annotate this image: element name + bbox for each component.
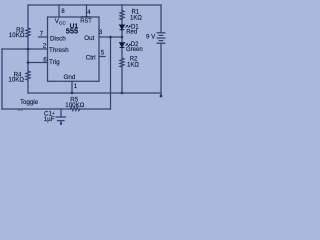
wire pin4 drop [86, 5, 88, 17]
op 555 box U1 [48, 17, 100, 81]
node gnd pin1 junction [71, 92, 74, 95]
wire D1 to out node [121, 30, 123, 43]
capacitor C1 bottom lead [60, 121, 62, 124]
wire pin3 Out [99, 36, 122, 38]
svg-text:10KΩ: 10KΩ [9, 32, 25, 39]
LED D1 [120, 25, 125, 30]
svg-text:3: 3 [99, 29, 103, 36]
wire far-left drop [1, 49, 3, 109]
node pin2/rail junction [27, 48, 30, 51]
svg-text:1KΩ: 1KΩ [130, 16, 142, 22]
wire feedback vertical to Out [110, 37, 112, 109]
svg-text:Out: Out [84, 35, 94, 42]
wire pin8 drop [58, 5, 60, 17]
node out/led junction [121, 36, 124, 39]
svg-text:1: 1 [74, 83, 78, 90]
LED D2 [120, 43, 125, 48]
node pin6/rail junction [27, 61, 30, 64]
svg-text:5: 5 [101, 50, 105, 57]
junction dots [18, 36, 162, 125]
wire left rail middle [27, 38, 29, 72]
svg-text:4: 4 [87, 9, 91, 16]
wire pin6 stub [28, 62, 48, 64]
svg-text:Disch: Disch [50, 35, 66, 42]
wire pin2 node to far left [2, 48, 48, 50]
svg-text:6: 6 [43, 57, 47, 64]
wire pin5 Ctrl stub [99, 56, 105, 58]
svg-text:100KΩ: 100KΩ [65, 102, 84, 109]
svg-text:Thresh: Thresh [49, 47, 69, 54]
svg-text:Red: Red [126, 30, 137, 36]
wire R2 to bus [121, 67, 123, 94]
node out/feedback junction [109, 36, 112, 39]
svg-text:Trig: Trig [49, 59, 60, 66]
svg-text:9 V: 9 V [146, 34, 156, 41]
LED D2 arrows [126, 44, 131, 47]
resistor R3 [26, 28, 30, 37]
wire bottom right to feedback corner [80, 108, 111, 110]
svg-text:Toggle: Toggle [20, 99, 39, 106]
svg-text:Green: Green [126, 47, 143, 53]
node C1 bottom terminal [60, 123, 62, 125]
wire left rail lower to ground bus [27, 81, 29, 94]
node R2 bus junction [121, 92, 124, 95]
wire ground bus [28, 92, 161, 94]
svg-text:RST: RST [80, 18, 92, 24]
svg-text:10KΩ: 10KΩ [8, 77, 24, 84]
label RST overline [80, 16, 91, 18]
wire LED chain top [121, 5, 123, 10]
svg-text:555: 555 [66, 26, 78, 35]
wire right rail bottom [160, 43, 162, 96]
wire left rail upper [27, 5, 29, 28]
wire R1 to D1 [121, 19, 123, 25]
wire pin7 stub [39, 36, 48, 38]
toggle switch S1 [18, 110, 19, 111]
svg-text:1µF: 1µF [44, 116, 55, 123]
wire pin1 Gnd drop [71, 81, 73, 93]
svg-text:R1: R1 [132, 10, 140, 16]
node battery bus junction [160, 95, 163, 98]
resistor R1 [120, 11, 124, 20]
svg-text:7: 7 [40, 30, 44, 37]
svg-text:Ctrl: Ctrl [86, 55, 96, 62]
wire top Vcc rail [28, 4, 161, 6]
LED D1 arrows [126, 25, 131, 28]
svg-text:1KΩ: 1KΩ [127, 63, 139, 69]
wire D2 to R2 [121, 48, 123, 59]
resistor R5 [71, 107, 80, 110]
resistor R4 [26, 71, 30, 80]
resistor R2 [120, 58, 124, 67]
wire right rail top [160, 5, 162, 32]
capacitor C1 plates [56, 116, 66, 118]
wire bottom (toggle/C1/R5) [2, 108, 71, 110]
battery B1 plates [157, 32, 165, 34]
capacitor C1 top lead [60, 109, 62, 117]
svg-text:2: 2 [43, 43, 47, 50]
svg-text:Gnd: Gnd [64, 74, 76, 81]
svg-text:8: 8 [61, 8, 65, 15]
